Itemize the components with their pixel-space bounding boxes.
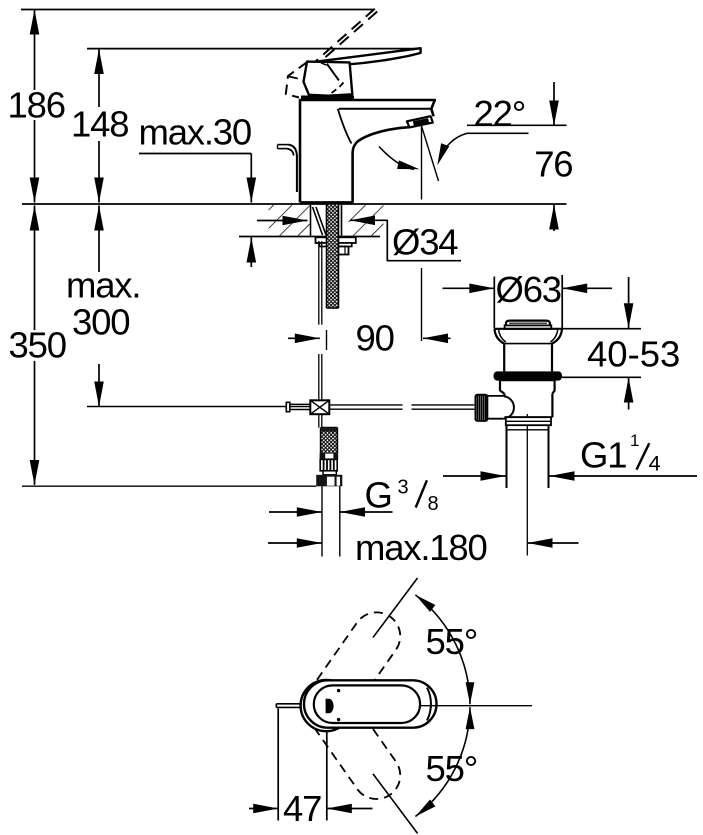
svg-text:max.180: max.180 (355, 527, 487, 568)
svg-text:300: 300 (72, 302, 129, 343)
svg-text:186: 186 (8, 85, 65, 126)
svg-text:4: 4 (649, 452, 661, 476)
svg-text:22°: 22° (474, 93, 526, 134)
svg-text:55°: 55° (426, 621, 478, 662)
svg-text:47: 47 (283, 788, 321, 829)
svg-text:76: 76 (534, 144, 572, 185)
svg-text:40-53: 40-53 (587, 334, 680, 375)
svg-text:max.: max. (66, 265, 140, 306)
svg-text:G1: G1 (580, 435, 626, 476)
svg-text:148: 148 (71, 104, 128, 145)
svg-text:350: 350 (9, 325, 66, 366)
svg-text:max.30: max.30 (139, 112, 252, 153)
svg-text:3: 3 (398, 477, 409, 499)
svg-text:90: 90 (356, 318, 394, 359)
svg-text:1: 1 (630, 431, 639, 450)
svg-text:Ø34: Ø34 (392, 222, 458, 263)
svg-text:8: 8 (428, 493, 439, 515)
svg-text:Ø63: Ø63 (496, 269, 561, 310)
svg-text:55°: 55° (426, 748, 478, 789)
svg-text:G: G (365, 475, 392, 516)
